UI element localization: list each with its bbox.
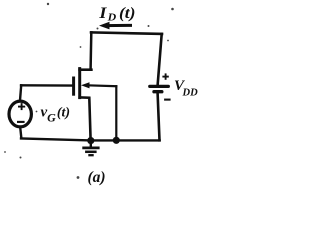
node junction dot body [113, 137, 120, 144]
wire bottom rail [21, 138, 160, 140]
polarity - inside source [17, 121, 25, 123]
wire drain jog [80, 68, 92, 71]
transistor M1 source arrow [81, 82, 116, 88]
transistor M1 gate bar [72, 78, 75, 94]
wire body drop [115, 86, 117, 140]
battery VDD top plate [150, 85, 169, 88]
voltage source vG(t) circle [9, 101, 31, 127]
polarity + battery [162, 73, 168, 79]
wire right vertical upper [158, 34, 162, 84]
transistor M1 channel bar [78, 69, 81, 98]
wire drain vertical left [89, 32, 92, 68]
current arrow ID [99, 22, 132, 30]
svg-text:(a): (a) [88, 169, 106, 186]
polarity - battery [164, 99, 171, 101]
node junction dot ground [87, 137, 94, 144]
transistor M1 source step [80, 97, 91, 140]
wire source bottom lead [20, 127, 21, 137]
ground symbol [82, 141, 99, 156]
wire gate lead [21, 84, 72, 87]
wire right vertical lower [158, 93, 160, 140]
scan specks [4, 3, 174, 179]
wire gate corner down to source vG [20, 85, 21, 99]
wire top rail [91, 32, 162, 34]
battery VDD bottom plate [154, 90, 162, 93]
label ID(t) [98, 4, 135, 23]
polarity + inside source [18, 103, 25, 110]
